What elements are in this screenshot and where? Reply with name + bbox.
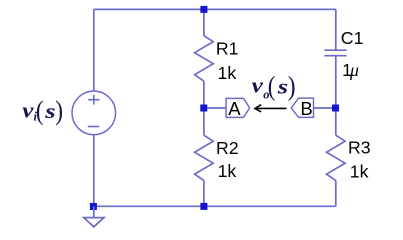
net tag B [291, 98, 313, 119]
svg-text:(: ( [36, 95, 44, 126]
svg-text:v: v [252, 73, 264, 98]
svg-text:R1: R1 [216, 38, 239, 58]
svg-text:C1: C1 [341, 28, 364, 48]
node junction top-middle [200, 6, 207, 13]
resistor R2 [195, 135, 214, 180]
wire R3 upper lead [335, 112, 337, 136]
svg-text:B: B [300, 98, 312, 119]
wire R1 lower lead [203, 81, 205, 104]
label v_i(s) [22, 95, 63, 126]
wire R2 upper lead [203, 112, 205, 136]
label 1u (C1) [342, 60, 359, 80]
svg-text:(: ( [268, 70, 276, 101]
wire bottom rail [94, 205, 336, 207]
svg-text:1k: 1k [218, 161, 237, 181]
node junction A [200, 105, 207, 112]
node junction B [332, 105, 339, 112]
arrow vo [255, 105, 287, 112]
resistor R1 [195, 36, 214, 81]
voltage source V1 [72, 91, 116, 135]
svg-text:R2: R2 [216, 138, 239, 158]
wire left rail upper [93, 9, 95, 91]
wire C1 to node B [335, 56, 337, 105]
wire tag B to node B [314, 107, 333, 109]
svg-text:v: v [22, 99, 34, 124]
wire R3 lower lead [335, 181, 337, 207]
wire R1 upper lead [203, 13, 205, 36]
svg-text:1k: 1k [350, 161, 369, 181]
ground [84, 206, 104, 227]
label v_o(s) [252, 70, 296, 101]
svg-text:R3: R3 [348, 138, 371, 158]
wire top rail [94, 8, 336, 10]
svg-text:A: A [228, 98, 241, 119]
svg-text:): ) [288, 70, 296, 101]
wire right rail upper [335, 9, 337, 50]
node junction bottom-left [90, 203, 97, 210]
svg-text:s: s [44, 99, 55, 123]
wire left rail lower [93, 135, 95, 207]
svg-text:μ: μ [349, 60, 359, 80]
net tag A [226, 98, 250, 119]
svg-text:1k: 1k [218, 63, 237, 83]
node junction bottom-middle [200, 203, 207, 210]
resistor R3 [327, 135, 346, 180]
svg-text:): ) [55, 95, 63, 126]
wire R2 lower lead [203, 181, 205, 207]
capacitor C1 [324, 50, 346, 56]
wire node A to tag A [207, 107, 226, 109]
svg-text:s: s [277, 75, 288, 99]
